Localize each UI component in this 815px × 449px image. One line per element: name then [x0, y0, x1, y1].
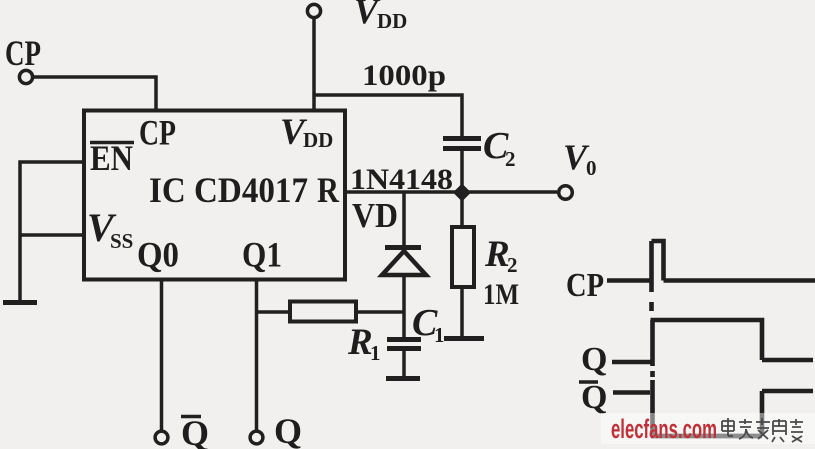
label C2 [483, 125, 516, 171]
svg-text:IC CD4017: IC CD4017 [149, 170, 308, 210]
label R1 [347, 322, 381, 365]
svg-text:Q1: Q1 [242, 235, 282, 275]
wire EN to left rail [20, 162, 84, 300]
label C1 [412, 302, 445, 347]
label R2 [484, 234, 518, 277]
svg-text:Q0: Q0 [137, 235, 179, 275]
wire R2 to ground [460, 287, 464, 336]
wire VSS to left rail [20, 233, 84, 237]
ground R2 [444, 336, 484, 341]
resistor R2 [452, 227, 474, 287]
svg-text:CP: CP [5, 33, 41, 73]
ground left [3, 300, 37, 305]
svg-text:CP: CP [566, 267, 604, 304]
wire C2 to node [460, 151, 464, 192]
svg-text:1000p: 1000p [362, 59, 446, 92]
svg-text:2: 2 [507, 253, 518, 277]
wire VDD terminal to IC [312, 18, 316, 111]
svg-text:1: 1 [370, 341, 381, 365]
wire CP input to IC pin CP [34, 77, 157, 109]
waveform Q [612, 320, 813, 366]
svg-text:elecfans.com: elecfans.com [611, 414, 717, 444]
label Qbar waveform [581, 379, 607, 416]
capacitor C1 [387, 340, 421, 349]
terminal VDD supply [307, 4, 320, 17]
label V0 [563, 137, 597, 180]
ground C1 [386, 376, 420, 381]
terminal Q0 [155, 431, 168, 444]
pin label VDD inside [280, 112, 333, 153]
wire Q1 branch to R1 [256, 310, 290, 314]
svg-text:1M: 1M [483, 278, 519, 311]
diode VD (triangle) [382, 251, 426, 275]
wire node to diode VD [402, 192, 406, 245]
svg-text:Q: Q [274, 411, 302, 449]
terminal V0 output [559, 186, 573, 200]
resistor R1 [290, 302, 356, 322]
svg-text:VD: VD [352, 196, 398, 235]
wire R pin to V0 node [345, 190, 557, 194]
wire R1 to C1 node [356, 310, 404, 314]
waveform CP [607, 241, 815, 292]
svg-text:0: 0 [586, 156, 597, 180]
pin label EN [90, 138, 133, 178]
wire C1 to ground [402, 351, 406, 376]
label VDD supply [354, 0, 407, 33]
pin label VSS [87, 205, 133, 253]
terminal CP input [19, 70, 32, 83]
svg-text:DD: DD [303, 128, 333, 152]
svg-text:R: R [347, 322, 373, 363]
svg-text:SS: SS [110, 229, 133, 253]
svg-text:1N4148: 1N4148 [350, 163, 453, 196]
svg-text:Q: Q [181, 413, 209, 449]
svg-text:Q: Q [581, 379, 607, 416]
timeline dash 2 [650, 371, 655, 377]
svg-text:1: 1 [434, 323, 445, 347]
svg-text:DD: DD [377, 9, 407, 33]
wire node to R2 [460, 192, 464, 227]
waveform Qbar [613, 380, 813, 436]
timeline dash-dot [649, 302, 654, 311]
capacitor C2 [443, 139, 481, 149]
svg-text:R: R [317, 170, 340, 210]
wire Q1 output [255, 279, 259, 430]
svg-text:R: R [484, 234, 510, 275]
wire diode to C1 node [402, 277, 406, 338]
wire 1000p branch to C2 [314, 95, 462, 137]
svg-text:Q: Q [581, 341, 607, 378]
svg-text:CP: CP [139, 113, 176, 153]
wire Q0 output [160, 279, 164, 430]
svg-text:2: 2 [505, 147, 516, 171]
wire Qbar low level (through watermark) [651, 434, 762, 439]
watermark chinese 电子发烧友 [722, 418, 803, 442]
diode VD (cathode bar) [385, 245, 421, 250]
junction node dot [453, 184, 471, 202]
label Qbar output [181, 413, 209, 449]
watermark background [601, 413, 815, 444]
op-amp U1 IC CD4017 box [84, 111, 345, 280]
terminal Q1 [250, 431, 263, 444]
